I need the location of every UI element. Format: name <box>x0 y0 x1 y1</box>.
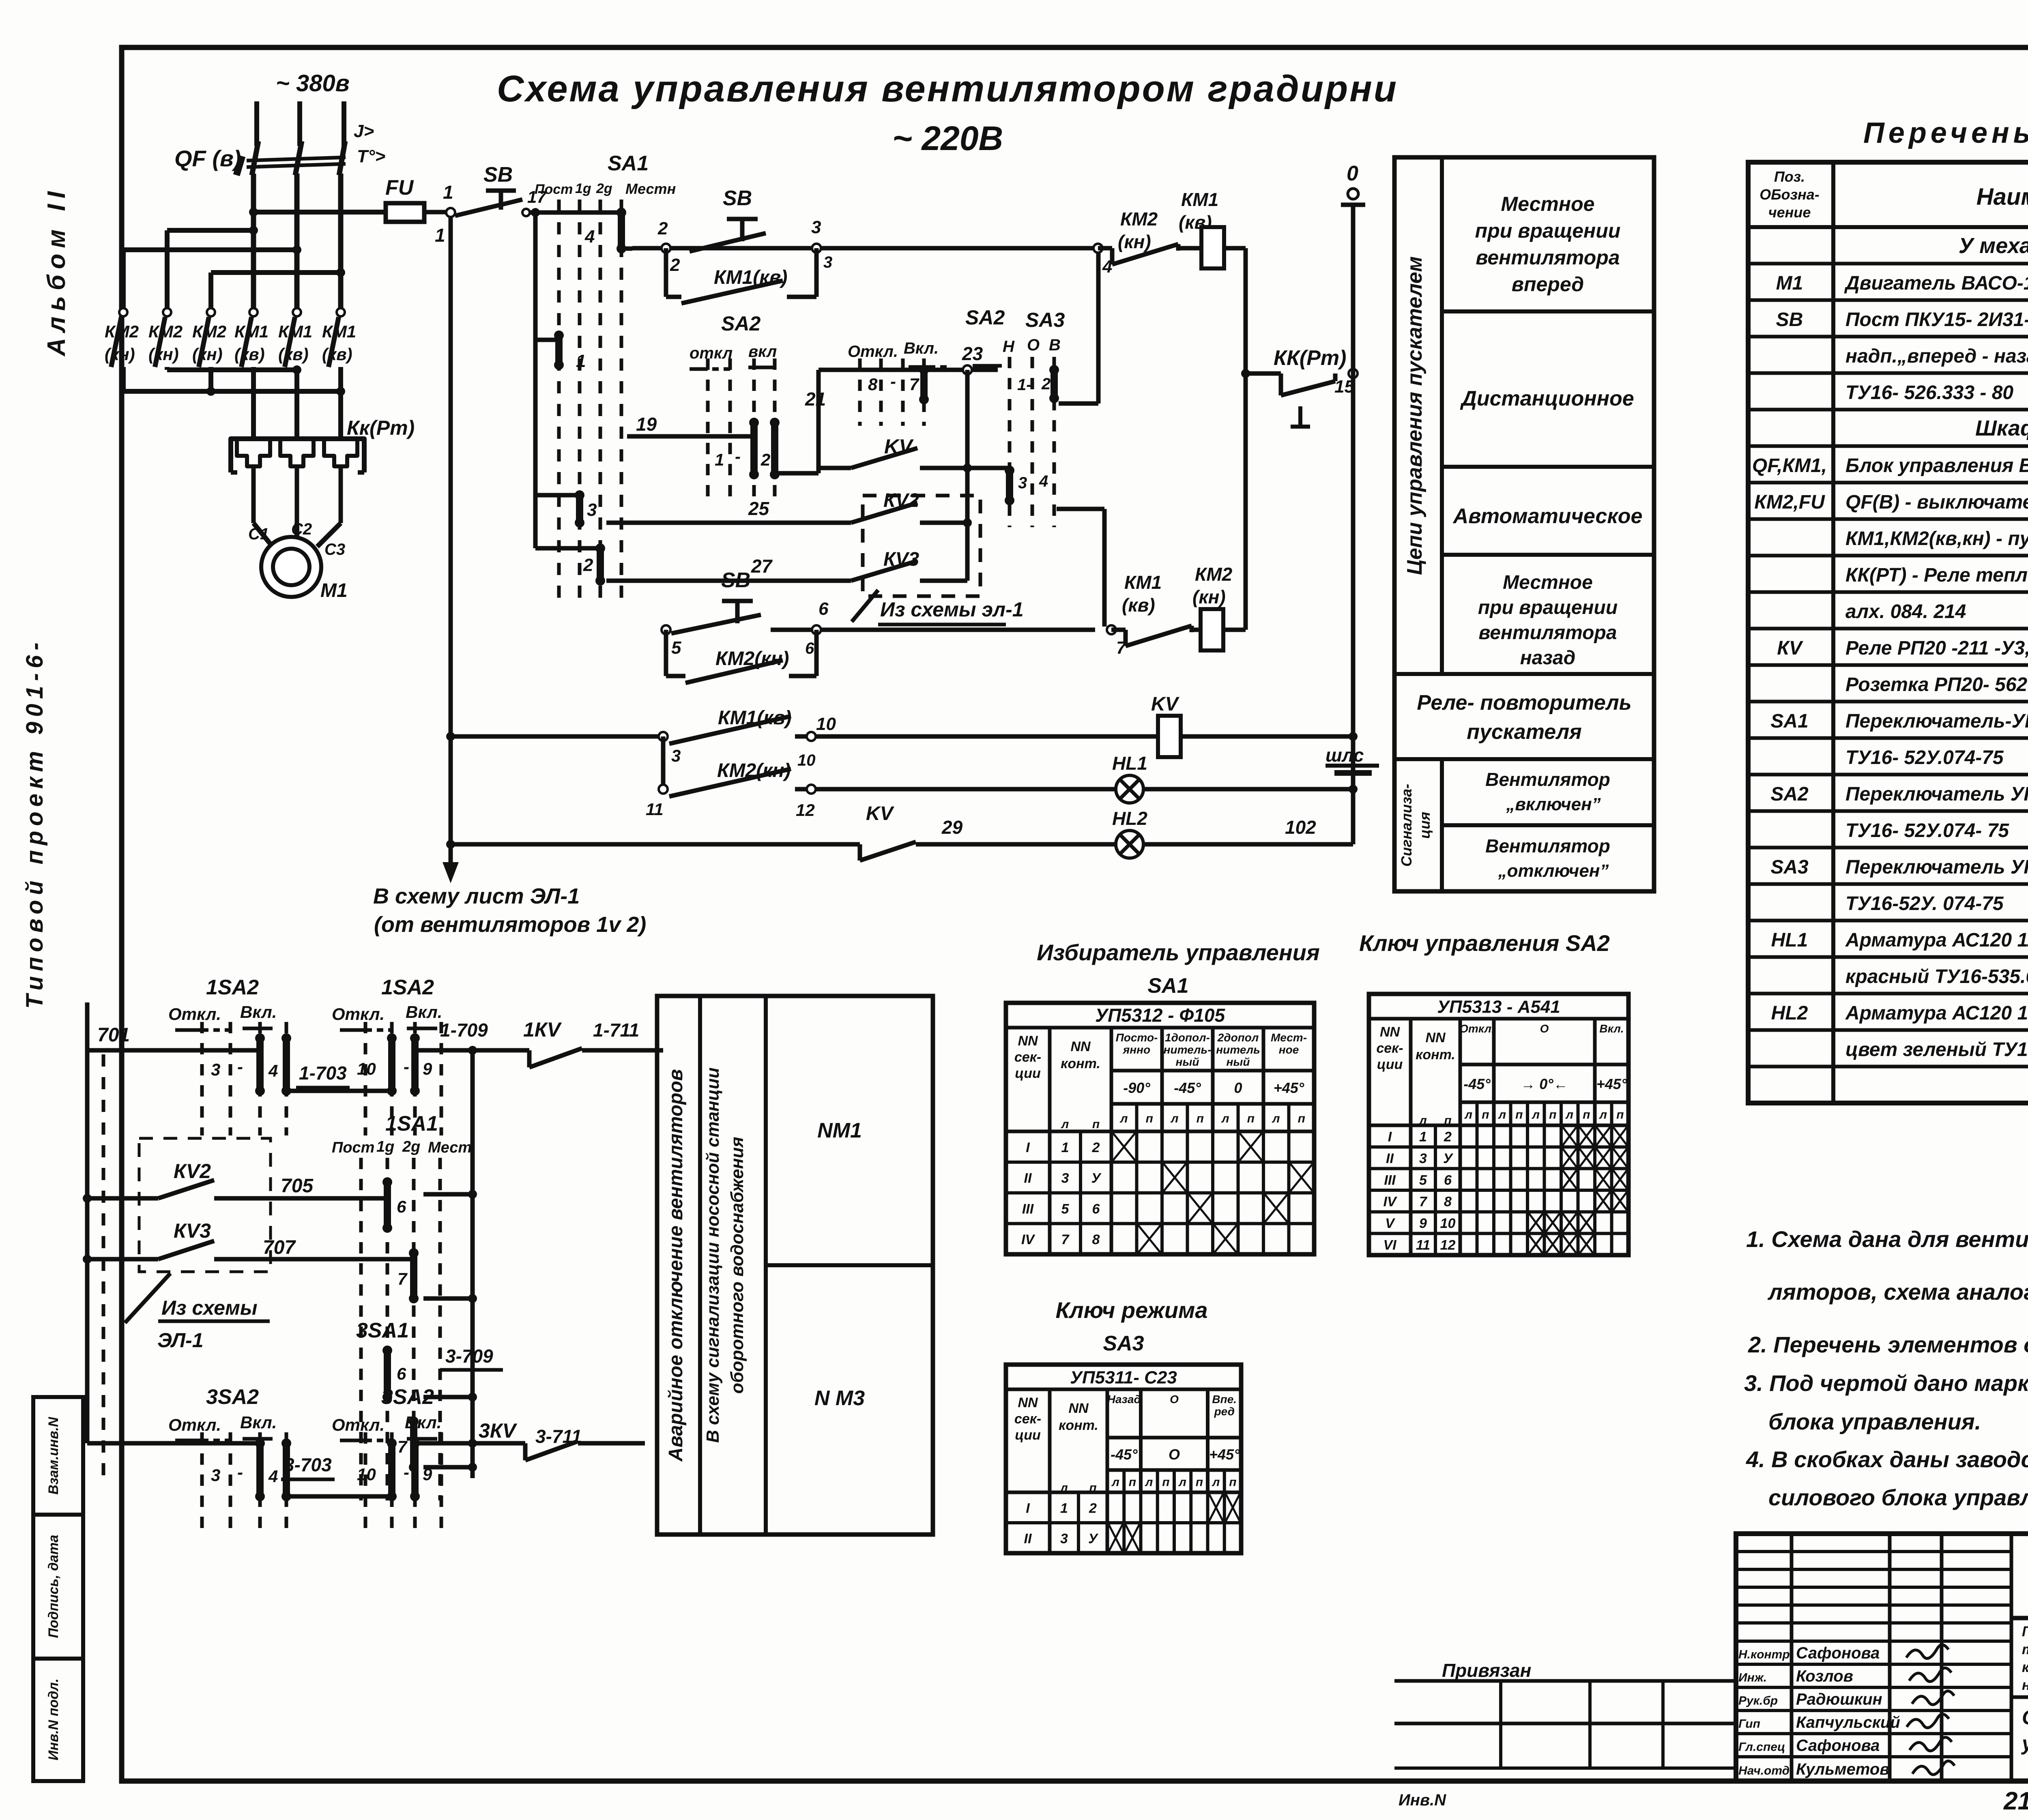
svg-text:КV2: КV2 <box>174 1160 211 1183</box>
svg-text:~ 220В: ~ 220В <box>892 119 1003 157</box>
svg-text:УП5312 - Ф105: УП5312 - Ф105 <box>1095 1005 1226 1026</box>
title block signature grid <box>1736 1534 2011 1781</box>
svg-text:(кн): (кн) <box>105 345 135 364</box>
svg-text:п: п <box>1196 1476 1203 1489</box>
svg-text:6: 6 <box>397 1364 406 1383</box>
svg-text:II: II <box>1024 1531 1032 1547</box>
svg-text:3-709: 3-709 <box>445 1346 493 1367</box>
svg-text:п: п <box>1298 1112 1305 1125</box>
svg-text:л: л <box>1531 1108 1540 1122</box>
svg-text:КМ1: КМ1 <box>322 322 356 341</box>
svg-text:6: 6 <box>397 1197 406 1216</box>
svg-text:УП5313 - А541: УП5313 - А541 <box>1437 997 1560 1017</box>
node 23 <box>963 365 972 374</box>
archive number 21135-01 25 <box>2003 1786 2028 1815</box>
svg-text:КМ2,FU: КМ2,FU <box>1754 491 1825 513</box>
svg-text:701: 701 <box>97 1024 130 1046</box>
svg-text:-90°: -90° <box>1123 1080 1150 1096</box>
svg-text:SB: SB <box>721 569 750 592</box>
svg-text:9: 9 <box>1419 1216 1427 1231</box>
node 6 <box>805 599 829 657</box>
svg-text:1: 1 <box>1060 1501 1068 1516</box>
svg-text:3SА1: 3SА1 <box>356 1319 409 1342</box>
svg-text:-: - <box>735 447 741 466</box>
svg-text:цвет зеленый ТУ16-535.681-76: цвет зеленый ТУ16-535.681-76 <box>1845 1039 2028 1060</box>
svg-text:п: п <box>1229 1476 1236 1489</box>
svg-text:КК(РТ) - Реле тепловое Iн.э- 3: КК(РТ) - Реле тепловое Iн.э- 32А <box>1845 564 2028 586</box>
svg-text:Пост ПКУ15- 2И31-5ЧУ2: Пост ПКУ15- 2И31-5ЧУ2 <box>1845 309 2028 331</box>
svg-text:красный ТУ16-535.681-76: красный ТУ16-535.681-76 <box>1845 966 2028 987</box>
svg-text:„включен”: „включен” <box>1506 794 1600 814</box>
left control rail (wire 1) <box>446 217 455 849</box>
svg-text:Откл.: Откл. <box>168 1415 221 1434</box>
svg-text:Вкл.: Вкл. <box>904 339 939 357</box>
svg-text:1: 1 <box>1419 1129 1427 1145</box>
svg-text:6: 6 <box>1444 1172 1452 1188</box>
svg-text:6: 6 <box>1092 1201 1100 1217</box>
svg-text:2g: 2g <box>596 181 612 196</box>
svg-text:KV: KV <box>866 803 895 824</box>
svg-text:л: л <box>1111 1476 1119 1489</box>
svg-text:л: л <box>1212 1476 1220 1489</box>
svg-text:29: 29 <box>941 817 963 838</box>
svg-text:7: 7 <box>397 1269 408 1288</box>
svg-text:ТУ16- 52У.074-75: ТУ16- 52У.074-75 <box>1845 747 2004 768</box>
svg-text:1-709: 1-709 <box>440 1019 488 1041</box>
svg-text:2: 2 <box>670 255 680 275</box>
svg-text:1SА1: 1SА1 <box>385 1112 438 1135</box>
svg-text:QF(В) - выключатель Iр·40А: QF(В) - выключатель Iр·40А <box>1845 491 2028 513</box>
svg-text:FU: FU <box>385 176 414 200</box>
svg-text:У: У <box>1088 1531 1099 1547</box>
svg-text:Вентилятор: Вентилятор <box>1485 835 1610 856</box>
svg-text:Откл.: Откл. <box>1459 1022 1495 1035</box>
svg-text:л: л <box>1119 1112 1128 1125</box>
svg-text:Шкаф: Шкаф <box>1975 416 2028 440</box>
svg-text:4. В скобках даны заводские: 4. В скобках даны заводские обозначения … <box>1746 1447 2028 1472</box>
svg-text:ТУ16- 526.333 - 80: ТУ16- 526.333 - 80 <box>1845 382 2013 403</box>
svg-text:11: 11 <box>646 800 664 819</box>
svg-text:п: п <box>1197 1112 1204 1125</box>
SA1 contact Местн (4) <box>559 208 626 253</box>
SA1 contact Пост (1) <box>535 331 586 371</box>
svg-text:КМ2: КМ2 <box>1120 208 1158 230</box>
svg-text:Сигнализа-: Сигнализа- <box>1398 784 1415 867</box>
svg-text:-45°: -45° <box>1174 1080 1201 1096</box>
svg-text:T°>: T°> <box>357 146 385 166</box>
svg-text:КV3: КV3 <box>174 1219 211 1242</box>
contactor coil KM1(кв) <box>1179 189 1246 268</box>
svg-text:Аварийное отключение вентиля: Аварийное отключение вентиляторов <box>665 1069 687 1462</box>
svg-text:102: 102 <box>1285 817 1316 838</box>
svg-text:I: I <box>1026 1140 1030 1155</box>
svg-text:3: 3 <box>1018 474 1027 492</box>
svg-text:-: - <box>237 1463 243 1482</box>
svg-text:7: 7 <box>397 1437 408 1456</box>
svg-text:ОБозна-: ОБозна- <box>1759 186 1820 203</box>
svg-text:Реле РП20 -211 -У3, U~ 220В,: Реле РП20 -211 -У3, U~ 220В, <box>1845 637 2028 659</box>
svg-text:Альбом II: Альбом II <box>43 186 71 357</box>
svg-text:3: 3 <box>1060 1531 1068 1547</box>
svg-text:3КV: 3КV <box>479 1419 518 1442</box>
svg-text:KV: KV <box>1151 693 1180 715</box>
svg-text:ция: ция <box>1416 812 1433 839</box>
svg-text:SA1: SA1 <box>608 152 649 175</box>
wire 23 <box>819 343 998 370</box>
svg-text:HL2: HL2 <box>1112 808 1147 829</box>
selector 1SA1 <box>332 1112 477 1500</box>
svg-text:Дистанционное: Дистанционное <box>1460 387 1634 410</box>
pushbutton SB forward <box>690 187 766 251</box>
svg-text:IV: IV <box>1383 1194 1397 1210</box>
wire control feed tap <box>249 208 389 217</box>
relay contact KV2 aux <box>83 1160 385 1203</box>
title block project name <box>2011 1618 2028 1781</box>
svg-text:Ключ режима: Ключ режима <box>1056 1297 1208 1323</box>
svg-text:л: л <box>1565 1108 1573 1122</box>
svg-text:+45°: +45° <box>1596 1076 1627 1092</box>
svg-text:2: 2 <box>1092 1140 1100 1155</box>
svg-text:-45°: -45° <box>1463 1076 1491 1092</box>
node 3 rung10 <box>659 732 681 765</box>
svg-text:SA2: SA2 <box>965 306 1005 329</box>
svg-text:л: л <box>1418 1114 1427 1127</box>
svg-text:оборотного водоснабжения: оборотного водоснабжения <box>727 1137 747 1394</box>
notes text block <box>1744 1226 2028 1510</box>
relay contact KV3 aux <box>83 1219 411 1264</box>
svg-text:Ключ управления SА2: Ключ управления SА2 <box>1359 930 1610 956</box>
svg-text:Вентилятор: Вентилятор <box>1485 769 1610 790</box>
node 7 <box>1107 625 1127 658</box>
wire SA3 to node7 branch <box>1057 509 1104 627</box>
svg-text:2: 2 <box>1444 1129 1452 1145</box>
svg-text:Мест-: Мест- <box>1271 1031 1307 1044</box>
svg-text:SВ: SВ <box>1776 309 1803 331</box>
arrow to sheet ЭЛ-1 <box>373 844 646 937</box>
svg-text:КМ2: КМ2 <box>148 322 183 341</box>
svg-text:КМ1: КМ1 <box>1181 189 1218 210</box>
svg-text:3: 3 <box>211 1466 220 1485</box>
svg-text:-: - <box>237 1057 243 1076</box>
svg-text:-: - <box>890 372 896 391</box>
svg-text:О: О <box>1540 1022 1549 1035</box>
svg-text:вентилятора: вентилятора <box>1479 622 1617 644</box>
wire 701 bus <box>87 1002 202 1476</box>
svg-text:Козлов: Козлов <box>1796 1668 1853 1685</box>
wire 1-709 <box>440 1019 488 1055</box>
supply phase stubs <box>257 101 344 146</box>
contact table SA3 УП5311-С23 <box>1006 1365 1241 1553</box>
svg-text:10: 10 <box>797 751 816 769</box>
svg-text:ТУ16- 52У.074- 75: ТУ16- 52У.074- 75 <box>1845 820 2009 841</box>
key SA2 second group <box>848 306 1005 426</box>
svg-text:VI: VI <box>1383 1237 1397 1253</box>
svg-text:Двигатель ВАСО-10-19ТУ16-510.3: Двигатель ВАСО-10-19ТУ16-510.365·77 <box>1844 273 2028 294</box>
svg-text:Назад: Назад <box>1107 1393 1141 1406</box>
svg-text:ЭЛ-1: ЭЛ-1 <box>157 1329 204 1352</box>
svg-text:C2: C2 <box>291 520 312 538</box>
margin stamp boxes (Взам.инв.N / Подпись,дата / Инв.N подл.) <box>33 1397 83 1781</box>
svg-text:ции: ции <box>1015 1066 1041 1081</box>
svg-text:SB: SB <box>723 187 752 210</box>
svg-text:Вкл.: Вкл. <box>1599 1022 1624 1035</box>
svg-text:Градирня трехсекционная с вен: Градирня трехсекционная с вен- <box>2022 1624 2028 1640</box>
svg-text:7: 7 <box>1419 1194 1428 1210</box>
svg-text:(кн): (кн) <box>1192 586 1226 607</box>
svg-text:п: п <box>1129 1476 1136 1489</box>
svg-text:1g: 1g <box>575 181 591 196</box>
svg-text:12: 12 <box>1440 1237 1456 1253</box>
node 10 <box>807 732 816 741</box>
svg-text:откл: откл <box>690 344 733 362</box>
relay contact 1KV <box>473 1018 663 1067</box>
svg-text:1: 1 <box>715 450 724 469</box>
svg-text:4: 4 <box>268 1061 278 1080</box>
svg-text:705: 705 <box>281 1175 314 1197</box>
svg-text:II: II <box>1386 1151 1394 1166</box>
svg-text:HL2: HL2 <box>1771 1002 1808 1024</box>
svg-text:Гл.спец: Гл.спец <box>1738 1741 1785 1754</box>
svg-text:п: п <box>1616 1108 1624 1122</box>
svg-text:Кк(Рт): Кк(Рт) <box>347 416 415 439</box>
svg-text:III: III <box>1384 1172 1396 1188</box>
svg-text:(кв): (кв) <box>1122 595 1155 616</box>
svg-text:л: л <box>1178 1476 1186 1489</box>
svg-text:конт.: конт. <box>1061 1056 1100 1071</box>
svg-text:Автоматическое: Автоматическое <box>1452 504 1643 528</box>
node 17 <box>527 187 559 212</box>
svg-text:+45°: +45° <box>1209 1446 1240 1463</box>
svg-text:п: п <box>1162 1476 1169 1489</box>
seal-in contact KM1(кв) <box>666 248 816 303</box>
svg-text:ное: ное <box>1279 1043 1299 1056</box>
svg-text:SB: SB <box>483 163 513 187</box>
SA1 contact 1g (3) <box>535 490 597 528</box>
svg-text:Мест.: Мест. <box>428 1139 476 1156</box>
svg-text:В: В <box>1049 336 1061 354</box>
svg-text:2g: 2g <box>402 1138 420 1155</box>
key 3SA2 group2 <box>332 1385 477 1530</box>
svg-text:(кн): (кн) <box>148 345 179 364</box>
motor M1 <box>248 520 348 601</box>
svg-text:3: 3 <box>1419 1151 1427 1166</box>
drawing title <box>497 68 1398 157</box>
key 1SA2 group1 <box>168 976 291 1135</box>
svg-text:„отключен”: „отключен” <box>1498 861 1609 881</box>
key 3SA2 group1 <box>87 1385 291 1530</box>
svg-text:Реле- повторитель: Реле- повторитель <box>1417 691 1631 715</box>
svg-text:Откл.: Откл. <box>848 343 898 361</box>
svg-text:ляторов, схема аналогична.: ляторов, схема аналогична. <box>1767 1279 2028 1305</box>
svg-text:6: 6 <box>805 640 814 657</box>
svg-text:3-703: 3-703 <box>284 1454 332 1475</box>
svg-text:Сафонова: Сафонова <box>1796 1737 1880 1755</box>
svg-text:КМ1(кв): КМ1(кв) <box>714 267 787 288</box>
svg-text:ции: ции <box>1015 1427 1041 1443</box>
svg-text:8: 8 <box>1444 1194 1452 1210</box>
svg-text:конт.: конт. <box>1416 1047 1455 1062</box>
svg-text:вкл: вкл <box>748 343 777 361</box>
svg-text:Откл.: Откл. <box>332 1415 385 1434</box>
svg-text:NN: NN <box>1068 1401 1089 1416</box>
svg-text:-45°: -45° <box>1111 1446 1138 1463</box>
svg-text:нитель-: нитель- <box>1164 1043 1212 1056</box>
svg-text:3. Под чертой дано маркиров: 3. Под чертой дано маркировка клемм сило… <box>1744 1370 2028 1396</box>
svg-text:1. Схема дана для вентилято: 1. Схема дана для вентилятора 1, для ост… <box>1746 1226 2028 1252</box>
title block document number ТП 901-6-86.86-ЭЛ <box>2011 1556 2028 1618</box>
svg-text:п: п <box>1444 1114 1451 1127</box>
svg-text:надп.„вперед - назад - стоп”,: надп.„вперед - назад - стоп”, <box>1845 346 2028 367</box>
svg-text:(кв): (кв) <box>322 345 352 364</box>
svg-text:Переключатель УП5313 -А541У3,р: Переключатель УП5313 -А541У3,рук.рев <box>1845 783 2028 805</box>
svg-text:Инв.N подл.: Инв.N подл. <box>46 1678 61 1760</box>
svg-text:1-: 1- <box>1017 376 1032 394</box>
svg-text:8: 8 <box>868 375 878 394</box>
neutral bus 0 <box>1341 162 1365 844</box>
svg-text:NN: NN <box>1425 1030 1446 1045</box>
svg-text:У: У <box>1443 1151 1454 1166</box>
svg-text:2: 2 <box>583 555 593 575</box>
svg-text:Инв.N: Инв.N <box>1399 1791 1446 1809</box>
svg-text:(кн): (кн) <box>192 345 223 364</box>
svg-text:О: О <box>1169 1446 1180 1463</box>
svg-text:10: 10 <box>1440 1216 1456 1231</box>
svg-text:назад: назад <box>1520 647 1576 669</box>
svg-text:управления вентилято-: управления вентилято- <box>2021 1732 2028 1755</box>
svg-text:1-703: 1-703 <box>299 1062 347 1084</box>
svg-text:Из схемы эл-1: Из схемы эл-1 <box>880 598 1024 621</box>
wire phase columns to contactor contacts <box>253 174 341 309</box>
svg-text:сек-: сек- <box>1376 1041 1403 1056</box>
svg-text:Избиратель управления: Избиратель управления <box>1037 940 1320 965</box>
svg-text:2: 2 <box>1041 375 1051 393</box>
svg-text:(кв): (кв) <box>278 345 309 364</box>
svg-text:КМ1: КМ1 <box>278 322 312 341</box>
svg-text:5: 5 <box>1061 1201 1070 1217</box>
margin caption Типовой проект 901-6- <box>21 637 48 1009</box>
pushbutton SB reverse <box>671 569 761 633</box>
key 1SA2 group2 <box>332 976 473 1135</box>
svg-text:11: 11 <box>1416 1237 1430 1253</box>
wire SA3 to node4 branch <box>1059 252 1098 403</box>
svg-text:(кн): (кн) <box>1118 231 1151 252</box>
svg-text:Взам.инв.N: Взам.инв.N <box>46 1417 61 1495</box>
svg-text:QF (в): QF (в) <box>174 146 241 171</box>
svg-text:при вращении: при вращении <box>1478 597 1618 618</box>
svg-text:п: п <box>1549 1108 1556 1122</box>
svg-text:NN: NN <box>1380 1024 1401 1040</box>
svg-text:УП5311- С23: УП5311- С23 <box>1070 1368 1177 1388</box>
rung 5-6 wire <box>771 628 1095 632</box>
dashed box from scheme ЭЛ-1 <box>852 496 1024 625</box>
fuse FU <box>385 176 446 222</box>
svg-text:19: 19 <box>636 414 657 435</box>
relay contact KV3 <box>606 549 967 581</box>
svg-text:Схема принципиальная: Схема принципиальная <box>2022 1706 2028 1729</box>
svg-text:7: 7 <box>1061 1232 1070 1247</box>
thermal relay KK(PT) heaters <box>231 416 415 523</box>
svg-text:ции: ции <box>1377 1057 1403 1072</box>
svg-text:Капчульский: Капчульский <box>1796 1714 1900 1732</box>
node 11 <box>659 785 668 794</box>
svg-text:Вкл.: Вкл. <box>405 1413 441 1432</box>
svg-text:Арматура АС120 11У2 ~220В,: Арматура АС120 11У2 ~220В,цвет <box>1845 929 2028 951</box>
svg-text:0: 0 <box>1347 162 1358 185</box>
svg-text:В схему сигнализации нососной: В схему сигнализации нососной станции <box>703 1067 723 1443</box>
svg-text:-: - <box>404 1057 409 1076</box>
svg-text:л: л <box>1221 1112 1229 1125</box>
svg-text:Цепи управления пускателем: Цепи управления пускателем <box>1403 256 1426 575</box>
svg-text:N М3: N М3 <box>814 1386 865 1410</box>
title block frame <box>1736 1534 2028 1781</box>
svg-text:Радюшкин: Радюшкин <box>1796 1691 1882 1708</box>
svg-text:Вкл.: Вкл. <box>406 1002 442 1022</box>
lamp HL2 <box>1112 808 1353 858</box>
svg-text:сек-: сек- <box>1014 1050 1041 1065</box>
svg-text:М1: М1 <box>320 580 348 601</box>
svg-text:Пост: Пост <box>332 1139 374 1156</box>
svg-text:Перечень элементов: Перечень элементов <box>1863 117 2028 149</box>
svg-text:пускателя: пускателя <box>1467 720 1582 744</box>
svg-text:Вкл.: Вкл. <box>240 1002 277 1022</box>
svg-text:л: л <box>1170 1112 1179 1125</box>
svg-text:Типовой проект 901-6-: Типовой проект 901-6- <box>21 637 48 1009</box>
svg-text:(кв): (кв) <box>234 345 265 364</box>
svg-text:(от вентиляторов 1v 2): (от вентиляторов 1v 2) <box>374 912 646 937</box>
svg-text:КМ2(кн): КМ2(кн) <box>715 648 789 670</box>
svg-text:II: II <box>1024 1171 1032 1186</box>
svg-text:NN: NN <box>1018 1395 1038 1410</box>
svg-text:23: 23 <box>962 343 983 364</box>
svg-text:каркасом из железобетон-: каркасом из железобетон- <box>2022 1659 2028 1675</box>
svg-text:Нач.отд: Нач.отд <box>1738 1764 1790 1777</box>
margin caption Альбом II <box>43 186 71 357</box>
bus terminal ШЛС <box>1326 745 1379 773</box>
table title Ключ управления SA2 <box>1359 930 1610 956</box>
node 15 <box>1349 369 1358 378</box>
rung 10 relay KV <box>451 693 1180 769</box>
svg-text:Н: Н <box>1003 338 1015 356</box>
svg-text:при вращении: при вращении <box>1475 219 1621 242</box>
svg-text:2: 2 <box>760 450 770 469</box>
svg-text:У: У <box>1091 1171 1102 1186</box>
thermal relay contact KK(PT) <box>1241 346 1354 427</box>
vertical wire node23 to KV2/KV3 <box>963 370 972 581</box>
svg-text:SA2: SA2 <box>721 312 760 335</box>
svg-text:Н.контр.: Н.контр. <box>1738 1648 1793 1661</box>
svg-text:SА2: SА2 <box>1770 783 1809 805</box>
svg-text:Вкл.: Вкл. <box>240 1413 277 1432</box>
svg-text:-: - <box>404 1463 409 1482</box>
svg-text:12: 12 <box>796 801 815 820</box>
svg-text:алх. 084. 214: алх. 084. 214 <box>1845 601 1966 622</box>
svg-text:SА1: SА1 <box>1770 710 1808 732</box>
svg-text:нитель: нитель <box>1216 1043 1260 1056</box>
svg-text:3: 3 <box>811 217 821 237</box>
svg-text:ных элементов.: ных элементов. <box>2022 1677 2028 1693</box>
svg-text:КV: КV <box>1777 637 1804 659</box>
svg-text:блока управления.: блока управления. <box>1768 1409 1981 1434</box>
svg-text:HL1: HL1 <box>1112 753 1147 774</box>
svg-text:л: л <box>1464 1108 1472 1122</box>
svg-text:1: 1 <box>443 182 453 203</box>
svg-text:5: 5 <box>671 638 681 658</box>
svg-text:SА3: SА3 <box>1770 856 1809 878</box>
svg-text:Местное: Местное <box>1501 193 1595 215</box>
node 3 <box>811 217 832 271</box>
NC contact KM1(кв) on reverse rung <box>1111 572 1201 646</box>
contactor KM2 reversing contacts with crossover wiring <box>111 226 345 396</box>
